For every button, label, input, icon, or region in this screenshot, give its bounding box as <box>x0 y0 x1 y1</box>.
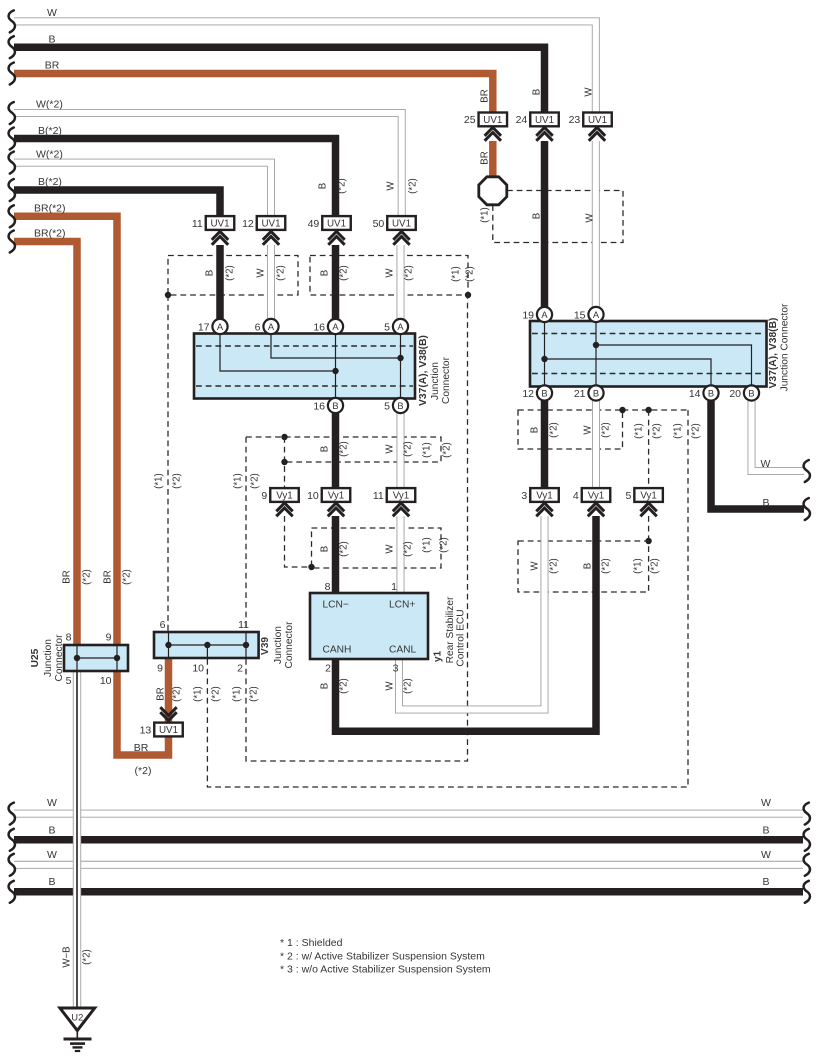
pin 16 B <box>313 398 343 413</box>
dashed option wire from left box to V39 pin 6 <box>167 295 169 631</box>
svg-text:(*2): (*2) <box>464 266 475 282</box>
svg-text:(*2): (*2) <box>81 569 92 585</box>
svg-text:16: 16 <box>313 321 325 333</box>
svg-text:B: B <box>541 388 547 398</box>
svg-text:(*1): (*1) <box>632 558 643 574</box>
svg-text:B: B <box>748 388 754 398</box>
svg-text:(*2): (*2) <box>121 569 132 585</box>
connector 50 UV1 <box>373 216 416 230</box>
shield octagon (*1) <box>479 177 507 205</box>
svg-text:13: 13 <box>140 724 152 736</box>
svg-text:16: 16 <box>313 400 325 412</box>
svg-text:V37(A), V38(B): V37(A), V38(B) <box>418 335 429 406</box>
svg-text:A: A <box>268 322 275 332</box>
svg-text:5: 5 <box>66 675 72 687</box>
wire W-B from U25 pin 5 to ground U2 <box>73 670 81 1008</box>
svg-text:Junction: Junction <box>43 639 54 677</box>
wire BR(*2) to U25 pin 9 <box>14 216 117 646</box>
wire BR bus top to connector 25 <box>14 74 493 114</box>
svg-text:(*2): (*2) <box>402 541 413 557</box>
svg-text:3: 3 <box>521 490 527 502</box>
svg-text:LCN+: LCN+ <box>389 600 415 611</box>
svg-text:(*2): (*2) <box>600 558 611 574</box>
svg-text:(*1): (*1) <box>192 686 203 702</box>
svg-text:A: A <box>397 322 404 332</box>
svg-text:B: B <box>48 34 55 46</box>
svg-text:Connector: Connector <box>54 634 65 682</box>
connector 24 UV1 <box>516 113 559 127</box>
pin 5 B <box>384 398 408 413</box>
svg-text:(*2): (*2) <box>248 686 259 702</box>
svg-text:UV1: UV1 <box>483 115 502 126</box>
wire B from 49 UV1 to pin 16 A <box>332 245 340 320</box>
svg-text:B(*2): B(*2) <box>38 176 62 188</box>
svg-text:B: B <box>319 270 330 276</box>
svg-text:W: W <box>384 544 395 554</box>
svg-text:B: B <box>397 401 403 411</box>
node dot lower mid box <box>308 564 314 570</box>
wire BR from V39 pin 9 to connector 13 UV1 <box>165 657 173 722</box>
svg-text:CANH: CANH <box>323 645 352 656</box>
wire W from ECU pin 3 CANL to connector 3 Vy1 <box>399 516 545 710</box>
svg-text:V37(A), V38(B): V37(A), V38(B) <box>768 318 779 389</box>
dashed lower right box around W/B wires <box>518 541 649 592</box>
svg-text:(*1): (*1) <box>633 423 644 439</box>
connector 12 UV1 <box>242 216 285 230</box>
pin 21 B <box>574 385 604 400</box>
dashed option wire V39 pin 10 to far right riser <box>207 410 688 787</box>
svg-text:3: 3 <box>393 663 399 675</box>
svg-text:15: 15 <box>574 309 586 321</box>
svg-text:(*2): (*2) <box>171 473 182 489</box>
wire B(*2) to connector 11 <box>14 190 220 217</box>
rear stabilizer control ECU y1 <box>310 593 428 659</box>
svg-text:(*2): (*2) <box>402 441 413 457</box>
svg-text:BR: BR <box>45 60 60 72</box>
svg-text:U2: U2 <box>71 1012 83 1023</box>
wire W from pin 20 B to right edge <box>752 401 805 471</box>
dashed option wire V37 to V39 pin 11 <box>245 437 247 631</box>
svg-text:(*1): (*1) <box>153 473 164 489</box>
svg-text:2: 2 <box>237 663 243 675</box>
svg-text:* 3 : w/o Active Stabilizer Su: * 3 : w/o Active Stabilizer Suspension S… <box>280 964 491 976</box>
dashed box right below pins 12,21 <box>518 410 623 449</box>
svg-text:CANL: CANL <box>389 645 417 656</box>
connector 10 Vy1 <box>307 488 350 502</box>
wire B from 10 Vy1 to ECU pin 8 LCN- <box>332 516 340 594</box>
svg-text:W: W <box>584 213 595 223</box>
svg-text:Vy1: Vy1 <box>393 491 410 502</box>
svg-text:B(*2): B(*2) <box>38 125 62 137</box>
svg-text:12: 12 <box>242 218 254 230</box>
svg-text:17: 17 <box>198 321 210 333</box>
svg-text:5: 5 <box>384 400 390 412</box>
connector 9 Vy1 <box>261 488 298 502</box>
ground U2 <box>60 1008 95 1051</box>
svg-text:19: 19 <box>522 309 534 321</box>
pin 19 A <box>522 307 552 322</box>
svg-text:(*2): (*2) <box>403 265 414 281</box>
svg-text:* 1 : Shielded: * 1 : Shielded <box>280 937 343 949</box>
svg-text:B: B <box>204 270 215 276</box>
svg-text:BR: BR <box>479 89 490 102</box>
svg-text:Vy1: Vy1 <box>536 491 553 502</box>
svg-text:W: W <box>384 444 395 454</box>
svg-text:UV1: UV1 <box>210 219 229 230</box>
svg-text:W(*2): W(*2) <box>36 99 63 111</box>
svg-text:W: W <box>47 797 57 809</box>
node junction dot left box <box>165 292 171 298</box>
svg-text:W: W <box>385 181 396 191</box>
wire B bus bottom 2 <box>14 888 803 896</box>
node dot mid box bottom <box>281 459 287 465</box>
connector 5 Vy1 <box>626 488 663 502</box>
svg-text:W(*2): W(*2) <box>36 149 63 161</box>
svg-text:B: B <box>708 388 714 398</box>
connector 49 UV1 <box>308 216 351 230</box>
svg-text:(*1): (*1) <box>421 537 432 553</box>
pin 20 B <box>729 385 759 400</box>
svg-text:W−B: W−B <box>61 946 72 967</box>
svg-text:(*1): (*1) <box>421 442 432 458</box>
svg-text:B: B <box>529 427 540 433</box>
svg-text:B: B <box>762 825 769 837</box>
svg-text:(*2): (*2) <box>81 949 92 965</box>
wire B from pin 14 B to right edge <box>711 401 804 509</box>
svg-text:9: 9 <box>106 632 112 644</box>
svg-text:Connector: Connector <box>441 356 452 404</box>
svg-text:Vy1: Vy1 <box>276 491 293 502</box>
svg-text:(*2): (*2) <box>338 678 349 694</box>
wire B from pin 12 B to connector 3 Vy1 <box>541 401 549 489</box>
svg-text:(*2): (*2) <box>651 423 662 439</box>
svg-text:B: B <box>319 683 330 689</box>
svg-text:(*2): (*2) <box>336 178 347 194</box>
wire B bus bottom 1 <box>14 836 803 844</box>
wire B bus top to connector 24 <box>14 47 545 113</box>
svg-text:10: 10 <box>307 490 319 502</box>
connector 11 UV1 <box>192 216 234 230</box>
svg-text:A: A <box>217 322 224 332</box>
svg-text:(*2): (*2) <box>338 441 349 457</box>
svg-text:(*1): (*1) <box>479 207 490 223</box>
svg-text:BR: BR <box>102 570 113 583</box>
connector 11 Vy1 <box>373 488 415 502</box>
svg-text:(*2): (*2) <box>171 686 182 702</box>
node dot mid box top <box>281 434 287 440</box>
wire W from 50 UV1 to pin 5 A <box>397 245 405 320</box>
svg-text:* 2 : w/ Active Stabilizer Sus: * 2 : w/ Active Stabilizer Suspension Sy… <box>280 950 485 962</box>
svg-text:W: W <box>583 87 594 97</box>
junction connector V39 <box>154 632 259 658</box>
svg-text:4: 4 <box>573 490 579 502</box>
dashed option wire to connector 9 Vy1 <box>284 437 286 488</box>
dashed option wire V39 pin 2 to right riser <box>246 295 468 761</box>
svg-text:(*2): (*2) <box>548 422 559 438</box>
svg-text:W: W <box>255 268 266 278</box>
svg-text:Junction: Junction <box>273 626 284 664</box>
connector 3 Vy1 <box>521 488 558 502</box>
svg-text:(*2): (*2) <box>224 265 235 281</box>
svg-text:Junction: Junction <box>430 362 441 400</box>
svg-text:W: W <box>529 561 540 571</box>
svg-text:W: W <box>47 849 57 861</box>
svg-text:(*2): (*2) <box>548 558 559 574</box>
wire W(*2) to connector 12 <box>14 163 271 217</box>
dashed option wire below 5 Vy1 <box>648 516 650 541</box>
node dot right box corner <box>619 407 625 413</box>
svg-text:10: 10 <box>192 663 204 675</box>
svg-text:(*2): (*2) <box>600 422 611 438</box>
svg-text:W: W <box>384 681 395 691</box>
wire W(*2) to connector 50 <box>14 113 402 217</box>
svg-text:Connector: Connector <box>284 621 295 669</box>
svg-text:y1: y1 <box>432 651 443 663</box>
svg-text:B: B <box>48 825 55 837</box>
svg-text:W: W <box>47 7 57 19</box>
svg-text:UV1: UV1 <box>327 219 346 230</box>
pin 14 B <box>689 385 719 400</box>
wire B from 11 UV1 to pin 17 A <box>216 245 224 320</box>
svg-text:BR: BR <box>61 570 72 583</box>
wire W from 11 Vy1 to ECU pin 1 LCN+ <box>397 516 405 594</box>
wire end curls left edge <box>9 10 15 902</box>
svg-text:A: A <box>593 310 600 320</box>
svg-text:(*2): (*2) <box>441 442 452 458</box>
svg-text:1: 1 <box>391 581 397 593</box>
wire BR(*2) to U25 pin 8 <box>14 242 77 647</box>
svg-text:UV1: UV1 <box>535 115 554 126</box>
svg-text:(*2): (*2) <box>690 423 701 439</box>
svg-text:A: A <box>541 310 548 320</box>
svg-text:(*2): (*2) <box>649 558 660 574</box>
shield dashed box around B and W wires <box>493 191 623 243</box>
svg-text:6: 6 <box>255 321 261 333</box>
svg-text:8: 8 <box>325 581 331 593</box>
wire W from pin 21 B to connector 4 Vy1 <box>592 401 600 489</box>
svg-text:(*1): (*1) <box>231 686 242 702</box>
wire W bus top-left to connector 23 <box>14 21 596 113</box>
svg-text:UV1: UV1 <box>159 725 178 736</box>
connector 4 Vy1 <box>573 488 610 502</box>
svg-text:B: B <box>319 446 330 452</box>
wire B(*2) to connector 49 <box>14 139 336 217</box>
svg-text:BR(*2): BR(*2) <box>34 203 66 215</box>
svg-text:(*2): (*2) <box>135 765 152 777</box>
svg-text:UV1: UV1 <box>392 219 411 230</box>
svg-text:BR: BR <box>134 742 149 754</box>
svg-text:(*1): (*1) <box>450 266 461 282</box>
svg-text:25: 25 <box>464 114 476 126</box>
svg-text:9: 9 <box>261 490 267 502</box>
svg-text:11: 11 <box>373 490 384 502</box>
svg-text:UV1: UV1 <box>588 115 607 126</box>
wire W bus bottom 2 <box>14 861 803 869</box>
svg-text:8: 8 <box>66 632 72 644</box>
svg-text:B: B <box>582 563 593 569</box>
svg-text:9: 9 <box>157 663 163 675</box>
svg-text:2: 2 <box>325 663 331 675</box>
svg-text:BR: BR <box>479 151 490 164</box>
wire B from pin 16 B to connector 10 Vy1 <box>332 411 340 489</box>
wire W bus bottom 1 <box>14 810 803 818</box>
svg-text:Junction Connector: Junction Connector <box>779 303 790 391</box>
svg-text:Vy1: Vy1 <box>588 491 605 502</box>
svg-text:5: 5 <box>384 321 390 333</box>
svg-text:W: W <box>582 425 593 435</box>
pin 6 A <box>255 319 279 334</box>
svg-text:(*2): (*2) <box>210 686 221 702</box>
svg-text:23: 23 <box>569 114 581 126</box>
connector 13 UV1 <box>140 723 183 737</box>
pin 17 A <box>198 319 228 334</box>
svg-text:BR(*2): BR(*2) <box>34 228 66 240</box>
svg-text:14: 14 <box>689 388 701 400</box>
svg-text:W: W <box>384 268 395 278</box>
node junction dot right box <box>465 292 471 298</box>
svg-text:(*2): (*2) <box>275 265 286 281</box>
svg-text:(*1): (*1) <box>232 473 243 489</box>
junction connector V37(A) V38(B) left block <box>194 334 415 399</box>
pin 5 A <box>384 319 408 334</box>
dashed mid box around B/W wires above Vy1 row <box>246 437 441 462</box>
wire W from 12 UV1 to pin 6 A <box>267 245 275 320</box>
svg-text:21: 21 <box>574 388 586 400</box>
svg-text:(*2): (*2) <box>338 265 349 281</box>
node dot lower right box <box>645 538 651 544</box>
svg-text:LCN−: LCN− <box>323 600 349 611</box>
svg-text:6: 6 <box>160 619 166 631</box>
svg-text:(*2): (*2) <box>338 541 349 557</box>
wire BR from 25 UV1 to shield octagon <box>489 141 497 178</box>
svg-text:B: B <box>531 89 542 95</box>
connector 25 UV1 <box>464 113 507 127</box>
junction connector V37(A) V38(B) right block <box>530 321 767 387</box>
dashed harness box right (B/W *2 wires to pins 16,5) <box>310 256 468 296</box>
dashed lower mid box around B/W wires above ECU <box>312 528 442 568</box>
svg-text:W: W <box>761 849 771 861</box>
svg-text:B: B <box>762 497 769 509</box>
svg-text:V39: V39 <box>260 637 271 655</box>
svg-text:50: 50 <box>373 218 385 230</box>
dashed harness box left (B/W *2 wires to pins 17,6) <box>168 256 298 296</box>
svg-text:12: 12 <box>522 388 534 400</box>
wire end curls right edge <box>804 460 810 903</box>
dashed option wire to connector 5 Vy1 <box>648 410 650 488</box>
svg-text:UV1: UV1 <box>261 219 280 230</box>
svg-text:W: W <box>761 458 771 470</box>
svg-text:11: 11 <box>192 218 203 230</box>
svg-text:B: B <box>48 876 55 888</box>
svg-text:49: 49 <box>308 218 320 230</box>
svg-text:Rear Stabilizer: Rear Stabilizer <box>445 596 456 663</box>
svg-text:B: B <box>762 876 769 888</box>
pin 16 A <box>313 319 343 334</box>
svg-text:Vy1: Vy1 <box>328 491 345 502</box>
svg-text:(*2): (*2) <box>407 178 418 194</box>
pin 12 B <box>522 385 552 400</box>
svg-text:(*1): (*1) <box>672 423 683 439</box>
svg-text:A: A <box>332 322 339 332</box>
wire W from pin 5 B to connector 11 Vy1 <box>397 411 405 489</box>
svg-text:B: B <box>332 401 338 411</box>
svg-text:B: B <box>317 183 328 189</box>
svg-text:(*2): (*2) <box>402 678 413 694</box>
wire B from ECU pin 2 CANH to connector 4 Vy1 <box>336 516 597 731</box>
svg-text:Vy1: Vy1 <box>640 491 657 502</box>
dashed extension to far right riser <box>623 409 689 411</box>
svg-text:(*2): (*2) <box>438 537 449 553</box>
svg-text:Control ECU: Control ECU <box>455 609 466 666</box>
svg-text:B: B <box>593 388 599 398</box>
svg-text:10: 10 <box>100 675 112 687</box>
node dot option wire 5 Vy1 <box>645 407 651 413</box>
connector 23 UV1 <box>569 113 612 127</box>
svg-text:11: 11 <box>238 619 249 631</box>
svg-text:20: 20 <box>729 388 741 400</box>
svg-text:5: 5 <box>626 490 632 502</box>
svg-text:B: B <box>531 213 542 219</box>
svg-text:W: W <box>761 797 771 809</box>
svg-text:24: 24 <box>516 114 528 126</box>
pin 15 A <box>574 307 604 322</box>
svg-text:U25: U25 <box>30 648 41 667</box>
dashed option wire below 9 Vy1 to lower box <box>285 516 312 567</box>
wire B from 24 UV1 to pin 19 A <box>541 141 549 309</box>
wire BR from U25 pin 10 to connector 13 UV1 <box>117 670 169 755</box>
svg-text:BR: BR <box>155 687 166 700</box>
wire W from 23 UV1 to pin 15 A <box>592 141 600 309</box>
junction connector U25 <box>64 645 128 671</box>
svg-text:(*2): (*2) <box>249 473 260 489</box>
svg-text:B: B <box>319 546 330 552</box>
